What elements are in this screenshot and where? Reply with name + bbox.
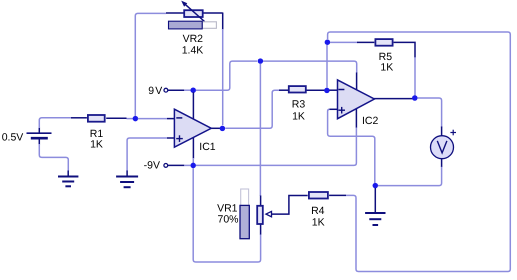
svg-text:R3: R3: [292, 99, 306, 111]
wire node F to node G: [326, 45, 328, 88]
ground (IC1 +): [116, 171, 138, 188]
svg-text:9V: 9V: [148, 85, 163, 97]
op-amp IC2: [329, 73, 412, 128]
node B (9V / IC1 V+): [190, 87, 196, 93]
wire battery- to ground: [39, 144, 68, 171]
node I (IC2 output): [412, 95, 418, 101]
op-amp IC1: [167, 92, 220, 163]
wire node G to R5: [330, 41, 358, 43]
svg-text:1K: 1K: [90, 138, 103, 150]
wire node C to IC2 V+ pin: [263, 61, 357, 73]
node H (ground node): [373, 183, 379, 189]
node A (R1 / IC1- / VR2): [133, 116, 139, 122]
node C (9V / IC2 V+ / VR1 top): [258, 58, 264, 64]
voltmeter V1: [431, 127, 457, 167]
node G (feedback / R5 left): [325, 39, 331, 45]
node E (IC1 output): [220, 126, 226, 132]
wire node A to IC1 inverting input: [138, 118, 167, 120]
ground (node H): [365, 188, 385, 225]
wire node C down to VR1 top: [259, 64, 261, 196]
VR2 slider gauge: [169, 21, 217, 29]
wire node H to voltmeter -: [378, 166, 442, 186]
ground (battery): [58, 171, 78, 187]
wire IC2 non-inverting input to ground node H: [328, 109, 375, 183]
svg-text:0.5V: 0.5V: [2, 132, 24, 144]
battery B1 0.5V: [27, 128, 52, 145]
wire node D to IC2 V- pin: [196, 127, 356, 165]
wire IC1 output to R3: [225, 90, 279, 128]
resistor R5 1K: [375, 39, 415, 95]
svg-text:1K: 1K: [312, 216, 325, 228]
svg-text:1K: 1K: [292, 110, 305, 122]
svg-text:IC2: IC2: [362, 115, 379, 127]
terminal -9V: [164, 164, 190, 168]
wire IC1 non-inverting input to ground: [127, 138, 167, 171]
svg-text:-9V: -9V: [144, 160, 160, 172]
svg-text:VR2: VR2: [183, 33, 204, 45]
node D (-9V / IC1 V-): [190, 163, 196, 169]
svg-text:70%: 70%: [217, 214, 238, 226]
wire VR2 right down to IC1 output node: [222, 29, 224, 125]
svg-text:IC1: IC1: [199, 141, 216, 153]
wire outer loop R4 feedback to node G: [328, 32, 511, 272]
node F (R3 / IC2- ): [324, 88, 330, 94]
potentiometer VR2 1.4K: [166, 1, 223, 30]
VR1 slider gauge: [240, 189, 249, 239]
resistor R3 1K: [279, 86, 325, 92]
wire node I to voltmeter +: [417, 98, 441, 128]
svg-text:1K: 1K: [380, 62, 393, 74]
svg-text:R4: R4: [311, 205, 325, 217]
terminal +9V: [164, 88, 191, 92]
wire node A up to VR2 left: [135, 13, 166, 116]
resistor R1 1K: [71, 115, 127, 122]
resistor R4 1K: [309, 192, 346, 199]
wire battery+ to R1: [39, 118, 71, 128]
svg-text:1.4K: 1.4K: [182, 44, 204, 56]
wire 9V node to node C: [196, 61, 257, 90]
wire R1 to node A: [127, 118, 134, 120]
potentiometer VR1 70%: [257, 196, 308, 235]
wire node D down around to VR1 bottom: [193, 168, 260, 262]
